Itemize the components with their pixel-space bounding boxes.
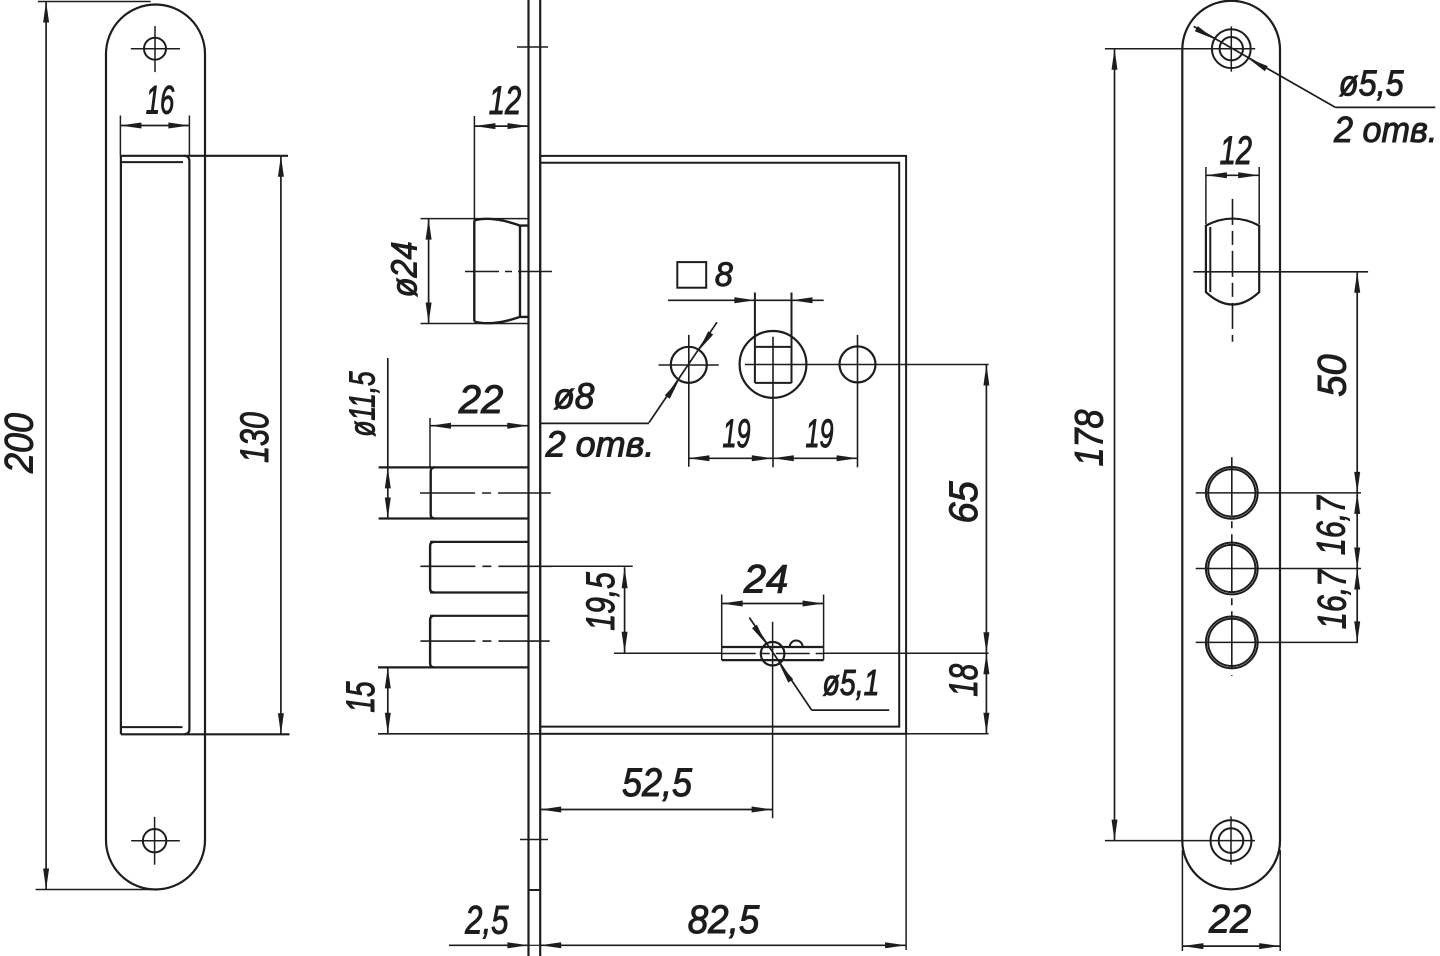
hole diam5.1 circle xyxy=(761,642,785,666)
svg-text:22: 22 xyxy=(1208,898,1252,942)
deadbolt pin 1 centerline xyxy=(420,492,551,494)
lock case inner outline xyxy=(541,163,899,727)
spindle follower circle xyxy=(740,331,807,398)
svg-text:2 отв.: 2 отв. xyxy=(1333,110,1437,150)
faceplate bottom end tick xyxy=(529,889,541,891)
strike plate top screw hole centerlines xyxy=(131,48,180,50)
lock axis horizontal centerline xyxy=(1193,271,1368,273)
svg-text:2,5: 2,5 xyxy=(464,898,509,943)
faceplate top screw hole inner xyxy=(1220,37,1243,60)
svg-text:ø8: ø8 xyxy=(553,376,594,416)
dimension 200 extension line top xyxy=(38,1,151,3)
deadbolt hole 1 horizontal centerline xyxy=(1196,492,1361,494)
follower square hole symbol xyxy=(677,262,706,288)
stop pin plate top and bottom edges xyxy=(722,646,824,648)
faceplate bottom screw hole centerline tick xyxy=(520,839,548,841)
dimension 8 extension lines / spindle square sides xyxy=(754,293,756,384)
svg-text:65: 65 xyxy=(942,481,986,524)
dimension 22 line with arrows (middle view) xyxy=(430,425,528,427)
dimension 19.5 line with arrows xyxy=(624,567,626,653)
strike plate outline (left view, stadium shape) xyxy=(106,5,205,890)
leader diam5.5 horizontal tail xyxy=(1335,106,1435,108)
svg-text:50: 50 xyxy=(1311,354,1355,397)
deadbolt pin 3 edges xyxy=(430,615,528,617)
spindle follower crosshair xyxy=(745,364,989,366)
faceplate bottom screw hole centerlines xyxy=(1105,840,1255,842)
deadbolt pin 1 left end xyxy=(431,467,435,518)
svg-text:ø5,5: ø5,5 xyxy=(1339,64,1405,104)
leader diam5.1 horizontal tail xyxy=(812,709,890,711)
latch bolt centerline xyxy=(465,271,552,273)
svg-text:8: 8 xyxy=(715,256,734,294)
strike plate top screw hole xyxy=(144,38,166,60)
left fixing hole crosshair xyxy=(659,364,719,366)
leader diam8 diagonal with arrows xyxy=(649,322,717,422)
faceplate bottom screw hole outer xyxy=(1211,820,1252,861)
svg-text:52,5: 52,5 xyxy=(622,761,693,805)
dimension 200 extension line bottom xyxy=(36,889,152,891)
faceplate top screw hole centerlines xyxy=(1105,48,1255,50)
strike plate slot bottom-right corner arc xyxy=(184,729,189,734)
lock faceplate edge lines (side view) xyxy=(527,0,529,956)
dimension 82.5 line with arrows xyxy=(540,944,906,946)
left fixing hole diam8 xyxy=(671,347,707,383)
dimension 18 line with arrows xyxy=(985,653,987,734)
svg-text:178: 178 xyxy=(1066,409,1111,466)
deadbolt pin 1 edges xyxy=(379,466,528,468)
dimension 65 line with arrows xyxy=(985,365,987,654)
latch cutout outline (right view) xyxy=(1206,219,1259,305)
dimension 130 line with arrows xyxy=(280,156,282,735)
deadbolt holes vertical centerline xyxy=(1231,457,1233,676)
leader diam5.5 diagonal with arrows xyxy=(1194,26,1336,107)
dimension 24 extension lines / plate ends xyxy=(721,595,723,661)
dimension 22 line with arrows (right view) xyxy=(1182,945,1280,947)
right fixing hole diam8 xyxy=(840,346,876,382)
dimension 19-19 line with arrows xyxy=(688,457,857,459)
svg-text:15: 15 xyxy=(339,681,383,713)
deadbolt pin 3 left end xyxy=(430,616,434,668)
dimension 12 line with arrows (right view) xyxy=(1206,174,1259,176)
faceplate top screw hole centerline tick xyxy=(517,46,548,48)
svg-text:12: 12 xyxy=(1220,129,1252,174)
deadbolt hole 3 inner xyxy=(1208,619,1255,666)
svg-text:ø11,5: ø11,5 xyxy=(342,371,383,437)
deadbolt hole 1 outer xyxy=(1206,467,1258,519)
dimension 16.7 lower line with arrows xyxy=(1356,569,1358,643)
deadbolt pin 2 centerline extension xyxy=(552,565,633,567)
dimension 52.5 line with arrows xyxy=(540,809,772,811)
dimension 15 line with arrows xyxy=(387,667,389,733)
svg-text:2 отв.: 2 отв. xyxy=(545,423,655,464)
svg-text:130: 130 xyxy=(232,412,277,463)
lock case right extension line down xyxy=(905,734,907,950)
dimension 16.7 upper line with arrows xyxy=(1356,493,1358,569)
dimension 16 extension lines xyxy=(119,116,121,156)
leader diam8 horizontal tail xyxy=(541,422,650,424)
dimension 2.5 tail with arrow xyxy=(449,944,529,946)
svg-text:16,7: 16,7 xyxy=(1309,495,1354,555)
svg-text:16,7: 16,7 xyxy=(1310,569,1355,629)
svg-text:200: 200 xyxy=(0,413,42,474)
faceplate bottom screw hole inner xyxy=(1219,828,1244,853)
svg-text:16: 16 xyxy=(146,79,175,123)
latch cutout inner edge line xyxy=(1209,227,1211,292)
deadbolt hole 2 inner xyxy=(1208,545,1255,592)
svg-text:22: 22 xyxy=(458,378,504,422)
dimension diam24 extension lines xyxy=(421,218,529,220)
dimension 22 extension line (middle view) xyxy=(429,418,431,467)
strike plate bottom screw hole xyxy=(143,829,166,852)
dimension 8 line with outside arrows xyxy=(668,299,824,301)
dimension 12 extension lines (right view) xyxy=(1205,167,1207,224)
faceplate outline (right view, stadium shape) xyxy=(1182,1,1280,890)
svg-text:ø24: ø24 xyxy=(385,241,425,297)
deadbolt hole 3 horizontal centerline xyxy=(1196,641,1358,643)
deadbolt hole 2 outer xyxy=(1206,543,1258,595)
lock case bottom extension to 65 dim xyxy=(906,733,989,735)
latch cutout centerline vertical xyxy=(1232,199,1234,342)
lock case outer outline xyxy=(540,156,906,734)
dimension diam11.5 line with arrows xyxy=(387,358,389,519)
dimension 178 line with arrows xyxy=(1114,49,1116,841)
hole diam5.1 centerline vertical xyxy=(772,622,774,819)
dimension 12 extension line xyxy=(473,116,475,222)
deadbolt hole 2 horizontal centerline xyxy=(1196,568,1361,570)
svg-text:19: 19 xyxy=(722,412,750,456)
strike plate bottom screw hole centerlines xyxy=(131,840,180,842)
dimension 50 line with arrows xyxy=(1356,272,1358,493)
svg-text:24: 24 xyxy=(743,557,789,601)
deadbolt pin 3 centerline xyxy=(420,640,549,642)
hole diam5.1 centerline horizontal xyxy=(614,652,722,654)
deadbolt hole 3 outer xyxy=(1206,617,1258,669)
svg-text:19: 19 xyxy=(805,412,833,456)
strike plate slot top-right corner arc xyxy=(184,156,189,161)
strike plate slot inner fold line top xyxy=(121,161,183,163)
deadbolt pin 2 edges xyxy=(430,541,528,543)
svg-text:18: 18 xyxy=(942,663,986,696)
stop pin bump semicircle xyxy=(790,641,803,647)
svg-text:19,5: 19,5 xyxy=(579,572,623,631)
deadbolt pin 2 left end xyxy=(430,542,434,593)
dimension 24 line with arrows xyxy=(722,603,824,605)
leader diam5.1 diagonal with arrows xyxy=(749,618,811,711)
deadbolt pin 2 centerline xyxy=(420,565,552,567)
dimension 12 line with arrows (middle view) xyxy=(474,125,528,127)
svg-text:12: 12 xyxy=(489,79,521,124)
dimension 200 line with arrows xyxy=(45,2,47,890)
latch bolt head outline xyxy=(474,219,528,323)
dimension 16 line with arrows xyxy=(120,125,189,127)
right fixing hole vertical crosshair xyxy=(857,335,859,467)
dimension diam24 line with arrows xyxy=(428,219,430,324)
faceplate top screw hole outer xyxy=(1212,29,1251,68)
dimension 22 extension lines (right view) xyxy=(1181,850,1183,951)
lock case bottom extension line to left xyxy=(378,733,540,735)
strike plate slot opening xyxy=(121,156,290,735)
deadbolt hole 1 inner xyxy=(1208,469,1255,516)
strike plate slot inner fold line bottom xyxy=(121,726,183,728)
svg-text:82,5: 82,5 xyxy=(688,898,760,943)
spindle square hole top and bottom edges xyxy=(755,346,792,348)
svg-text:ø5,1: ø5,1 xyxy=(823,663,880,703)
